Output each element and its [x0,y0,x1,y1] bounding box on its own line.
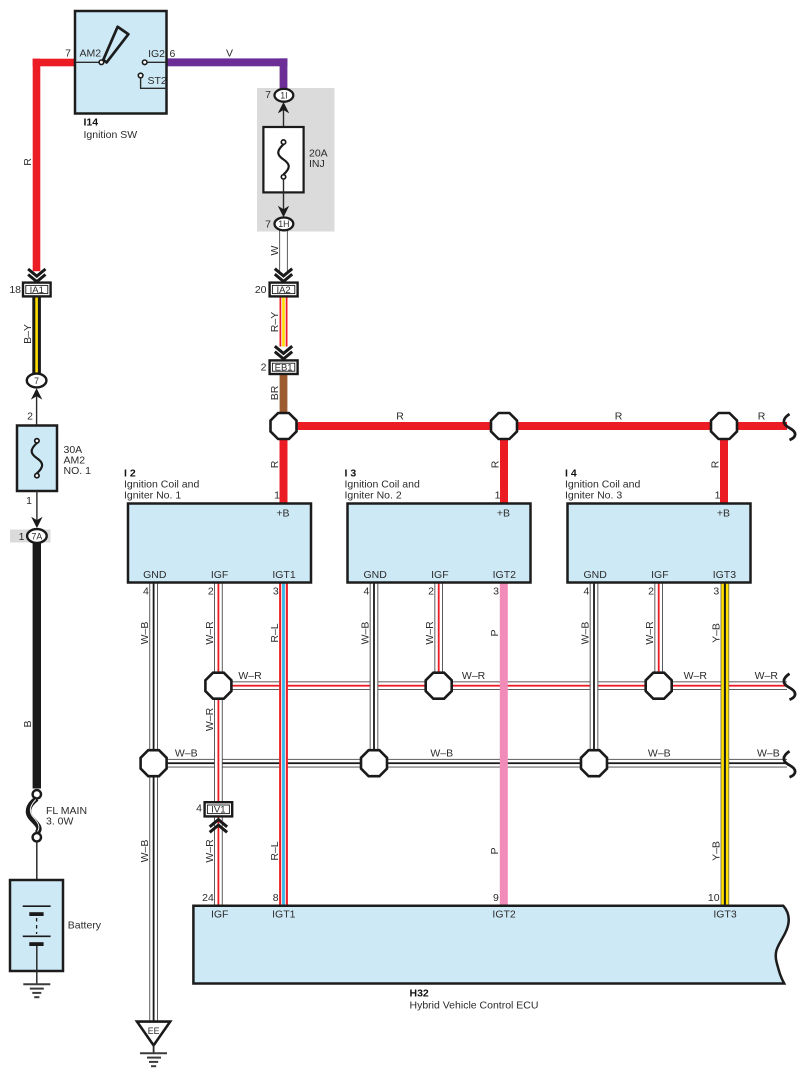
svg-text:W–B: W–B [757,748,780,760]
wire W-B I2 GND down to EE ground [149,581,158,1022]
svg-text:IGF: IGF [211,569,229,581]
connector IA1 [23,283,51,297]
svg-text:IGF: IGF [211,909,229,921]
svg-text:R: R [22,158,34,166]
svg-text:I 2: I 2 [124,468,136,480]
wire B battery feed [33,542,41,789]
arrow out of IV1 [210,820,227,833]
lead 1I to fuse INJ [283,110,285,141]
svg-text:NO. 1: NO. 1 [64,465,92,477]
svg-text:V: V [226,48,233,60]
wire W-R I3 IGF [434,581,443,686]
svg-text:W–B: W–B [648,748,671,760]
svg-text:IG2: IG2 [148,48,165,60]
wire W-R I2 IGF down to IV1 and H32 [214,581,223,906]
break symbol W-B row right [784,751,795,777]
connector EB1 [270,360,298,374]
fuse element 20A [278,144,289,174]
svg-text:Battery: Battery [68,920,102,932]
igniter I3 box [348,504,531,583]
battery dashed link [36,918,38,934]
battery cell 1 [23,905,51,907]
svg-text:IA2: IA2 [276,285,290,296]
svg-text:R: R [615,411,623,423]
svg-text:INJ: INJ [309,158,325,170]
junction node red bus / I3 [491,413,517,439]
svg-text:W–R: W–R [684,670,708,682]
svg-text:I 4: I 4 [565,468,577,480]
wire R-L I2 IGT1 to H32 [279,581,288,906]
wire W-R I4 IGF [654,581,663,686]
svg-text:3. 0W: 3. 0W [46,816,74,828]
svg-text:W–R: W–R [238,670,262,682]
svg-text:I 3: I 3 [345,468,357,480]
svg-text:2: 2 [261,362,267,374]
svg-text:1: 1 [19,531,25,543]
svg-text:W–B: W–B [430,748,453,760]
wire W-R row horizontal [218,681,787,690]
svg-text:2: 2 [648,586,654,598]
svg-text:IGT2: IGT2 [493,569,516,581]
svg-text:Igniter No. 2: Igniter No. 2 [345,490,402,502]
arrow into IA2 [275,269,292,282]
fuse 20A INJ box [263,127,303,192]
ignition switch I14 box [75,11,167,114]
wire W-B I4 GND [590,581,599,763]
svg-text:4: 4 [196,803,202,815]
wire V ignition to INJ fuse [167,58,288,91]
wire W-B row horizontal [154,759,787,768]
wire B-Y IA1 to fuse [32,296,41,375]
fusible link bottom circle [33,833,41,841]
svg-text:1: 1 [715,490,721,502]
wire W-B I3 GND [370,581,379,763]
junction node red bus / BR [271,413,297,439]
battery box [10,880,63,971]
junction node red bus / I4 [711,413,737,439]
svg-text:Igniter No. 3: Igniter No. 3 [565,490,622,502]
svg-text:+B: +B [276,508,289,520]
EE ground symbol [140,1053,167,1066]
svg-text:W–B: W–B [579,622,591,645]
svg-text:3: 3 [713,586,719,598]
igniter I2 box [128,504,311,583]
junction node W-R row / IGF3 [646,673,672,699]
arrow into oval 7A [31,517,42,528]
break symbol W-R row right [784,674,795,700]
arrow into oval 1I [278,102,289,113]
gray band 7A [10,530,51,543]
svg-text:GND: GND [364,569,388,581]
break symbol R bus right [784,414,795,440]
svg-text:P: P [489,629,501,636]
pin IG2 contact [142,60,147,65]
svg-text:W–R: W–R [644,621,656,645]
svg-text:R–Y: R–Y [269,312,281,332]
svg-text:Y–B: Y–B [710,841,722,861]
svg-text:20: 20 [255,284,267,296]
svg-text:AM2: AM2 [80,48,102,60]
svg-text:IGT2: IGT2 [492,909,515,921]
junction node W-R row / IGF2 [426,673,452,699]
igniter I4 box [568,504,751,583]
svg-text:W: W [269,245,281,255]
svg-text:W–B: W–B [359,622,371,645]
fuse element 30A [32,443,43,473]
svg-text:W–B: W–B [175,748,198,760]
fusible link FL MAIN top circle [33,790,41,798]
svg-text:2: 2 [428,586,434,598]
svg-text:R–L: R–L [269,841,281,860]
junction node W-B row / GND2 [361,750,387,776]
pin ST2 contact [138,73,143,78]
svg-text:IA1: IA1 [30,285,44,296]
svg-text:ST2: ST2 [148,75,167,87]
svg-text:P: P [489,847,501,854]
fuse 30A AM2 box [17,426,57,492]
svg-text:R: R [269,460,281,468]
svg-text:R–L: R–L [269,623,281,642]
wire R drop to I3 +B [500,426,508,505]
connector IV1 [205,802,233,816]
svg-text:7A: 7A [32,531,43,541]
ground triangle EE [137,1022,170,1046]
svg-text:R: R [396,411,404,423]
svg-text:W–R: W–R [462,670,486,682]
oval connector 1H [275,218,294,231]
lead to battery [36,842,38,907]
junction node W-R row / IGF1 [205,673,231,699]
svg-text:R: R [709,460,721,468]
svg-text:7: 7 [265,89,271,101]
svg-text:7: 7 [265,219,271,231]
svg-text:B: B [22,720,34,727]
svg-text:W–R: W–R [204,621,216,645]
svg-text:2: 2 [208,586,214,598]
svg-text:4: 4 [583,586,589,598]
connector IA2 [270,283,298,297]
svg-text:18: 18 [9,284,21,296]
svg-text:3: 3 [273,586,279,598]
svg-text:GND: GND [143,569,167,581]
wire Y-B I4 IGT3 to H32 [721,581,730,906]
wire BR EB1 to junction [280,374,288,414]
arrow into oval 7 [31,388,42,399]
arrow into IA1 [28,269,45,282]
arrow into oval 1H [278,206,289,217]
svg-text:4: 4 [363,586,369,598]
battery cell 2 [23,935,51,937]
svg-text:IGT1: IGT1 [272,569,295,581]
pin IG2 lead [147,61,167,63]
svg-text:Ignition SW: Ignition SW [84,129,138,141]
oval connector 7A [27,529,47,543]
svg-text:Igniter No. 1: Igniter No. 1 [124,490,181,502]
wire P I3 IGT2 to H32 [500,581,508,906]
wire W fuse 1H to IA2 [279,230,288,271]
ECU H32 box [193,906,788,984]
pin AM2 contact [99,60,104,65]
wire R-Y IA2 to EB1 [280,297,288,347]
EE ground lead [153,1045,155,1053]
svg-text:8: 8 [273,892,279,904]
svg-text:1H: 1H [278,219,289,229]
junction node W-B row / GND1 [141,750,167,776]
lead fuse to 1H [283,179,285,210]
svg-text:6: 6 [170,48,176,60]
wire R from ignition switch AM2 [33,59,75,272]
battery ground symbol [23,984,50,997]
wire R drop to I4 +B [720,426,728,505]
battery lead to ground [36,946,38,984]
svg-text:H32: H32 [410,988,429,1000]
svg-text:B–Y: B–Y [22,324,34,344]
svg-text:IV1: IV1 [211,805,225,816]
lead fuse to 7A [36,491,38,524]
svg-text:7: 7 [34,376,39,386]
svg-text:W–R: W–R [424,621,436,645]
switch lever [103,27,128,63]
svg-text:+B: +B [717,508,730,520]
svg-text:W–R: W–R [755,670,779,682]
svg-text:IGF: IGF [651,569,669,581]
svg-text:1: 1 [274,490,280,502]
svg-text:IGT1: IGT1 [272,909,295,921]
wire R drop to I2 +B [280,426,288,505]
svg-text:R: R [758,411,766,423]
svg-text:24: 24 [202,892,214,904]
oval connector 7 [27,374,47,388]
svg-text:R: R [489,460,501,468]
wire R bus horizontal [284,422,788,430]
svg-text:W–B: W–B [139,840,151,863]
svg-text:7: 7 [65,48,71,60]
svg-text:W–R: W–R [204,839,216,863]
svg-text:4: 4 [143,586,149,598]
svg-text:W–B: W–B [139,622,151,645]
svg-text:2: 2 [27,410,33,422]
fuse panel gray background [257,88,335,232]
svg-text:IGF: IGF [431,569,449,581]
svg-text:Hybrid Vehicle Control ECU: Hybrid Vehicle Control ECU [410,1000,539,1012]
svg-text:1I: 1I [280,91,287,101]
svg-text:1: 1 [495,490,501,502]
svg-text:GND: GND [584,569,608,581]
svg-text:EB1: EB1 [275,363,293,374]
svg-text:IGT3: IGT3 [713,569,736,581]
fusible link element [28,799,39,833]
pin ST2 lead [141,78,167,89]
svg-text:IGT3: IGT3 [713,909,736,921]
svg-text:1: 1 [26,495,32,507]
lead into fuse AM2 [36,396,38,440]
svg-text:I14: I14 [84,117,99,129]
svg-text:W–R: W–R [204,707,216,731]
svg-text:3: 3 [493,586,499,598]
svg-text:+B: +B [497,508,510,520]
oval connector 1I [275,89,294,102]
svg-text:BR: BR [269,385,281,400]
svg-text:9: 9 [493,892,499,904]
pin AM2 lead [75,61,100,63]
junction node W-B row / GND3 [581,750,607,776]
arrow into EB1 [275,346,292,359]
svg-text:10: 10 [708,892,720,904]
svg-text:Y–B: Y–B [710,623,722,643]
svg-text:EE: EE [148,1026,160,1036]
